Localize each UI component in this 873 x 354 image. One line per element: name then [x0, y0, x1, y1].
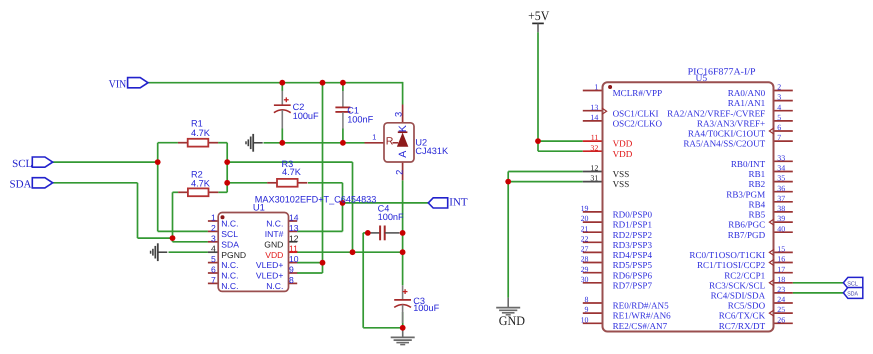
svg-text:24: 24 [777, 295, 785, 304]
svg-text:18: 18 [777, 275, 785, 284]
svg-text:4.7K: 4.7K [191, 179, 211, 189]
svg-text:RA3/AN3/VREF+: RA3/AN3/VREF+ [697, 119, 765, 129]
svg-text:3: 3 [211, 233, 216, 243]
svg-text:GND: GND [264, 239, 283, 249]
svg-text:9: 9 [289, 265, 294, 275]
svg-text:MCLR#/VPP: MCLR#/VPP [613, 88, 663, 98]
svg-text:19: 19 [581, 204, 589, 213]
svg-text:N.C.: N.C. [221, 281, 238, 291]
svg-text:RE0/RD#/AN5: RE0/RD#/AN5 [613, 301, 670, 311]
svg-text:RC1/T1OSI/CCP2: RC1/T1OSI/CCP2 [697, 260, 766, 270]
svg-text:RB3/PGM: RB3/PGM [726, 189, 765, 199]
svg-text:RC6/TX/CK: RC6/TX/CK [719, 311, 766, 321]
svg-text:36: 36 [777, 184, 785, 193]
svg-text:VSS: VSS [613, 169, 630, 179]
svg-text:RA2/AN2/VREF-/CVREF: RA2/AN2/VREF-/CVREF [667, 108, 765, 118]
svg-text:12: 12 [590, 164, 598, 173]
svg-text:7: 7 [777, 133, 781, 142]
svg-text:K: K [397, 125, 409, 132]
svg-text:VSS: VSS [613, 179, 630, 189]
svg-text:13: 13 [289, 223, 299, 233]
svg-text:OSC2/CLKO: OSC2/CLKO [613, 119, 663, 129]
svg-text:INT#: INT# [265, 229, 284, 239]
svg-text:17: 17 [777, 265, 785, 274]
svg-text:34: 34 [777, 164, 785, 173]
svg-text:SCL: SCL [221, 229, 238, 239]
svg-text:PGND: PGND [221, 250, 246, 260]
svg-text:12: 12 [289, 233, 299, 243]
svg-text:N.C.: N.C. [266, 219, 283, 229]
svg-text:4.7K: 4.7K [191, 128, 211, 138]
svg-text:RD2/PSP2: RD2/PSP2 [613, 230, 653, 240]
svg-text:RA4/T0CKI/C1OUT: RA4/T0CKI/C1OUT [688, 129, 766, 139]
svg-text:100uF: 100uF [293, 111, 319, 121]
svg-text:A: A [397, 150, 409, 158]
svg-text:N.C.: N.C. [266, 281, 283, 291]
svg-text:35: 35 [777, 174, 785, 183]
svg-text:RC5/SDO: RC5/SDO [728, 301, 766, 311]
svg-text:25: 25 [777, 305, 785, 314]
svg-text:3: 3 [777, 93, 781, 102]
svg-text:9: 9 [585, 305, 589, 314]
svg-text:CJ431K: CJ431K [415, 146, 449, 156]
svg-text:N.C.: N.C. [221, 271, 238, 281]
svg-text:RB6/PGC: RB6/PGC [728, 220, 765, 230]
svg-text:16: 16 [777, 255, 785, 264]
svg-text:RC4/SDI/SDA: RC4/SDI/SDA [711, 291, 766, 301]
svg-text:13: 13 [590, 103, 598, 112]
svg-text:N.C.: N.C. [221, 219, 238, 229]
svg-text:RB2: RB2 [749, 179, 766, 189]
svg-text:5: 5 [777, 113, 781, 122]
svg-text:SDA: SDA [221, 239, 239, 249]
svg-text:100nF: 100nF [378, 212, 404, 222]
svg-text:22: 22 [581, 234, 589, 243]
svg-text:15: 15 [777, 245, 785, 254]
svg-text:RA1/AN1: RA1/AN1 [728, 98, 765, 108]
svg-text:11: 11 [289, 244, 298, 254]
svg-text:VDD: VDD [613, 149, 633, 159]
svg-text:3: 3 [393, 112, 404, 117]
svg-text:GND: GND [499, 313, 525, 328]
svg-text:8: 8 [289, 275, 294, 285]
svg-text:+5V: +5V [528, 8, 550, 23]
svg-text:7: 7 [211, 275, 216, 285]
svg-text:RA5/AN4/SS/C2OUT: RA5/AN4/SS/C2OUT [683, 139, 765, 149]
svg-text:4: 4 [777, 103, 781, 112]
svg-text:100uF: 100uF [413, 303, 439, 313]
svg-text:30: 30 [581, 275, 589, 284]
svg-text:2: 2 [211, 223, 216, 233]
svg-text:31: 31 [590, 174, 598, 183]
svg-text:R: R [386, 135, 394, 147]
svg-text:28: 28 [581, 255, 589, 264]
svg-text:RC0/T1OSO/T1CKI: RC0/T1OSO/T1CKI [689, 250, 765, 260]
svg-text:RD5/PSP5: RD5/PSP5 [613, 260, 653, 270]
svg-text:SDA: SDA [10, 179, 32, 191]
svg-text:10: 10 [289, 254, 299, 264]
svg-text:RB5: RB5 [749, 210, 766, 220]
svg-text:39: 39 [777, 214, 785, 223]
svg-text:OSC1/CLKI: OSC1/CLKI [613, 108, 659, 118]
svg-text:RC3/SCK/SCL: RC3/SCK/SCL [709, 280, 766, 290]
svg-text:1: 1 [594, 83, 598, 92]
svg-text:SCL: SCL [12, 158, 32, 170]
svg-text:38: 38 [777, 204, 785, 213]
svg-text:33: 33 [777, 153, 785, 162]
svg-text:10: 10 [581, 315, 589, 324]
svg-text:VLED+: VLED+ [256, 260, 283, 270]
svg-text:RC2/CCP1: RC2/CCP1 [724, 270, 765, 280]
svg-text:1: 1 [211, 213, 216, 223]
svg-text:RD1/PSP1: RD1/PSP1 [613, 220, 652, 230]
svg-text:U5: U5 [696, 74, 708, 84]
svg-text:37: 37 [777, 194, 785, 203]
svg-text:29: 29 [581, 265, 589, 274]
svg-text:RE1/WR#/AN6: RE1/WR#/AN6 [613, 311, 672, 321]
svg-text:2: 2 [393, 170, 404, 175]
svg-text:1: 1 [372, 132, 376, 141]
svg-text:RD6/PSP6: RD6/PSP6 [613, 270, 653, 280]
svg-text:14: 14 [289, 213, 299, 223]
svg-text:8: 8 [585, 295, 589, 304]
svg-text:6: 6 [777, 123, 781, 132]
svg-text:14: 14 [590, 113, 598, 122]
svg-text:32: 32 [590, 143, 598, 152]
svg-text:40: 40 [777, 224, 785, 233]
svg-text:U1: U1 [253, 202, 265, 213]
svg-text:VDD: VDD [613, 139, 633, 149]
svg-text:4.7K: 4.7K [282, 167, 302, 177]
svg-text:VDD: VDD [265, 250, 283, 260]
svg-text:26: 26 [777, 315, 785, 324]
svg-text:RA0/AN0: RA0/AN0 [728, 88, 766, 98]
svg-text:N.C.: N.C. [221, 260, 238, 270]
svg-text:INT: INT [449, 197, 468, 209]
svg-text:RC7/RX/DT: RC7/RX/DT [719, 321, 766, 331]
svg-text:RB1: RB1 [749, 169, 766, 179]
svg-text:MAX30102EFD+T_C6454833: MAX30102EFD+T_C6454833 [255, 194, 376, 205]
svg-text:100nF: 100nF [347, 115, 373, 125]
svg-text:VLED+: VLED+ [256, 271, 283, 281]
svg-text:RE2/CS#/AN7: RE2/CS#/AN7 [613, 321, 668, 331]
svg-text:23: 23 [777, 285, 785, 294]
svg-text:R1: R1 [191, 119, 203, 129]
svg-text:RD0/PSP0: RD0/PSP0 [613, 210, 653, 220]
svg-text:RD3/PSP3: RD3/PSP3 [613, 240, 653, 250]
svg-text:5: 5 [211, 254, 216, 264]
svg-text:4: 4 [211, 244, 216, 254]
svg-text:RD7/PSP7: RD7/PSP7 [613, 280, 653, 290]
svg-text:27: 27 [581, 245, 589, 254]
svg-text:RB4: RB4 [749, 199, 766, 209]
svg-text:6: 6 [211, 265, 216, 275]
svg-text:21: 21 [581, 224, 589, 233]
svg-text:RB7/PGD: RB7/PGD [728, 230, 766, 240]
svg-text:SDA: SDA [847, 290, 858, 297]
svg-text:RD4/PSP4: RD4/PSP4 [613, 250, 653, 260]
svg-text:11: 11 [591, 133, 599, 142]
svg-text:SCL: SCL [847, 280, 858, 287]
svg-text:VIN: VIN [109, 79, 126, 91]
svg-text:20: 20 [581, 214, 589, 223]
svg-text:RB0/INT: RB0/INT [731, 159, 766, 169]
svg-text:2: 2 [777, 83, 781, 92]
